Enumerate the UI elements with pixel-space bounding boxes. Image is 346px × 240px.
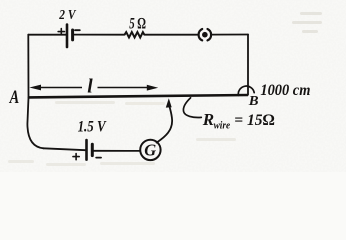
wire key to top-right corner: [211, 34, 248, 36]
wire right vertical: [247, 35, 249, 95]
wire main potentiometer wire A-B: [29, 95, 249, 97]
plug key K1 (circle with dot): [199, 29, 212, 40]
wire resistor to key: [144, 34, 198, 36]
wire bottom (corner to 1.5V battery): [44, 148, 86, 150]
svg-text:1.5 V: 1.5 V: [78, 118, 107, 135]
svg-text:2 V: 2 V: [58, 8, 76, 23]
polarity + of B1: [58, 29, 64, 35]
wire bottom-left curve: [27, 97, 43, 148]
galvanometer G: [140, 140, 160, 160]
length arrow (double-headed): [29, 85, 158, 91]
wire battery to galvanometer: [94, 150, 141, 152]
svg-text:R: R: [202, 110, 214, 129]
wire top-left horizontal: [28, 34, 66, 36]
svg-text:l: l: [87, 77, 93, 98]
polarity - of B1: [75, 29, 80, 31]
wire left vertical: [27, 35, 29, 98]
battery B1 2V: [67, 25, 73, 47]
arc at node B: [238, 86, 254, 95]
svg-text:B: B: [248, 94, 259, 109]
jockey arrowhead: [166, 98, 172, 107]
faint scan noise top-right: [292, 12, 322, 33]
svg-text:A: A: [9, 87, 19, 108]
battery B2 1.5V: [87, 140, 93, 160]
svg-text:G: G: [144, 141, 156, 160]
polarity + of B2: [73, 154, 79, 160]
resistor R1 zigzag: [125, 32, 145, 37]
faint scan noise bottom-left: [8, 101, 236, 166]
wire jockey curve from galvanometer: [157, 103, 173, 143]
svg-text:= 15Ω: = 15Ω: [234, 112, 274, 129]
pointer curve to R_wire label: [183, 98, 201, 118]
svg-text:5 Ω: 5 Ω: [129, 16, 146, 33]
svg-text:1000 cm: 1000 cm: [260, 82, 310, 99]
wire top middle (battery to resistor): [74, 34, 125, 36]
svg-text:wire: wire: [214, 121, 231, 132]
polarity - of B2: [96, 157, 101, 159]
